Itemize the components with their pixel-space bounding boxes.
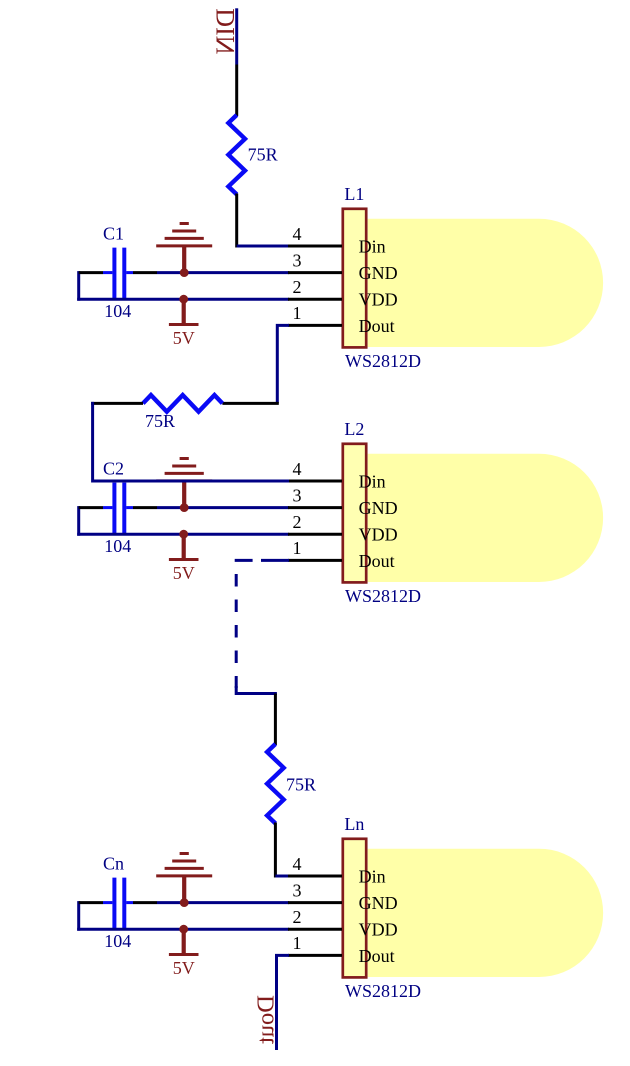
capacitor Cn plates <box>103 878 133 928</box>
pin 3 of L1 <box>288 271 342 274</box>
capacitor Cn right pin <box>133 901 157 904</box>
svg-text:Dout: Dout <box>359 551 395 571</box>
wire VDD net segment <box>77 533 289 536</box>
svg-text:104: 104 <box>104 536 131 556</box>
svg-text:WS2812D: WS2812D <box>345 351 421 371</box>
wire dashed segment horizontal <box>235 559 253 562</box>
svg-text:VDD: VDD <box>359 525 398 545</box>
svg-text:GND: GND <box>359 498 398 518</box>
wire VDD net segment <box>77 928 289 931</box>
pin 4 of L2 <box>288 480 342 483</box>
svg-text:75R: 75R <box>145 411 175 431</box>
resistor R2 75R zigzag (horizontal) <box>143 395 222 412</box>
svg-text:VDD: VDD <box>359 290 398 310</box>
ground symbol (earth) <box>156 224 212 273</box>
pin 2 of Ln <box>288 928 342 931</box>
svg-text:5V: 5V <box>173 563 195 583</box>
LED body shape of L2 <box>368 454 603 582</box>
wire: cap loop vertical <box>77 901 80 931</box>
svg-text:C1: C1 <box>103 224 124 244</box>
svg-text:GND: GND <box>359 893 398 913</box>
svg-text:2: 2 <box>293 512 302 532</box>
svg-text:Din: Din <box>359 236 386 256</box>
svg-text:3: 3 <box>293 250 302 270</box>
svg-text:75R: 75R <box>248 144 278 164</box>
svg-text:L1: L1 <box>344 184 364 204</box>
wire VDD net segment <box>77 298 289 301</box>
pin 3 of L2 <box>288 506 342 509</box>
svg-text:C2: C2 <box>103 459 124 479</box>
svg-text:5V: 5V <box>173 328 195 348</box>
pin 1 of L2 <box>288 559 342 562</box>
capacitor Cn left pin <box>79 901 103 904</box>
svg-text:104: 104 <box>104 301 131 321</box>
svg-text:4: 4 <box>293 224 302 244</box>
wire from R2 down to pin 4 of L2 (drawn over gnd bar) <box>93 402 289 481</box>
wire dashed vertical (chain continues) <box>235 574 238 688</box>
pin 4 of L1 <box>288 245 342 248</box>
resistor R1 bottom pin <box>235 194 238 248</box>
svg-text:2: 2 <box>293 907 302 927</box>
wire: cap loop vertical <box>77 271 80 301</box>
resistor R1 75R zigzag <box>228 115 245 194</box>
resistor R1 top pin <box>235 65 238 117</box>
pin 4 of Ln <box>288 875 342 878</box>
5V power symbol <box>169 929 199 954</box>
svg-text:3: 3 <box>293 880 302 900</box>
svg-text:3: 3 <box>293 485 302 505</box>
ground symbol (earth) <box>156 854 212 903</box>
wire corner to R3 <box>236 686 277 694</box>
resistor R3 bottom pin <box>274 823 277 878</box>
LED body shape of L1 <box>368 219 603 347</box>
component body L2 WS2812D <box>343 444 366 583</box>
capacitor C2 plates <box>103 483 133 533</box>
svg-text:1: 1 <box>293 933 302 953</box>
svg-text:Cn: Cn <box>103 854 124 874</box>
capacitor C2 left pin <box>79 506 103 509</box>
LED body shape of Ln <box>368 849 603 977</box>
svg-text:104: 104 <box>104 931 131 951</box>
junction dot on VDD net <box>179 925 188 934</box>
wire DIN net vertical <box>235 8 238 64</box>
5V power symbol <box>169 299 199 324</box>
svg-text:L2: L2 <box>344 419 364 439</box>
svg-text:1: 1 <box>293 303 302 323</box>
junction dot on VDD net <box>179 530 188 539</box>
pin 2 of L1 <box>288 298 342 301</box>
resistor R2 right pin <box>222 402 278 405</box>
capacitor C2 right pin <box>133 506 157 509</box>
pin 3 of Ln <box>288 901 342 904</box>
resistor R3 75R zigzag <box>267 744 284 823</box>
svg-text:4: 4 <box>293 854 302 874</box>
wire to pin 4 of L1 <box>237 245 289 248</box>
wire from Dout of L2 (solid part) <box>261 559 289 562</box>
svg-text:Din: Din <box>359 866 386 886</box>
junction dot on GND net <box>180 268 189 277</box>
svg-text:2: 2 <box>293 277 302 297</box>
svg-text:WS2812D: WS2812D <box>345 586 421 606</box>
wire from Dout of Ln <box>277 955 290 1050</box>
svg-text:Dout: Dout <box>252 995 279 1044</box>
wire GND net segment <box>157 506 289 509</box>
resistor R2 left pin <box>91 402 143 405</box>
junction dot on GND net <box>180 898 189 907</box>
svg-text:Din: Din <box>359 471 386 491</box>
wire: cap loop vertical <box>77 506 80 536</box>
svg-text:GND: GND <box>359 263 398 283</box>
resistor R3 top pin <box>274 694 277 746</box>
svg-text:1: 1 <box>293 538 302 558</box>
svg-text:VDD: VDD <box>359 920 398 940</box>
svg-text:5V: 5V <box>173 958 195 978</box>
junction dot on VDD net <box>179 295 188 304</box>
pin 2 of L2 <box>288 533 342 536</box>
svg-text:75R: 75R <box>286 774 316 794</box>
wire from Dout of L1 <box>277 325 289 403</box>
pin 1 of L1 <box>288 324 342 327</box>
wire GND net segment <box>157 271 289 274</box>
ground symbol (earth) <box>156 459 212 508</box>
junction dot on GND net <box>180 503 189 512</box>
svg-text:Dout: Dout <box>359 946 395 966</box>
svg-text:WS2812D: WS2812D <box>345 981 421 1001</box>
5V power symbol <box>169 534 199 559</box>
capacitor C1 plates <box>103 248 133 298</box>
svg-text:Ln: Ln <box>344 814 364 834</box>
component body Ln WS2812D <box>343 839 366 978</box>
capacitor C1 right pin <box>133 271 157 274</box>
component body L1 WS2812D <box>343 209 366 348</box>
pin 1 of Ln <box>288 954 342 957</box>
wire GND net segment <box>157 901 289 904</box>
capacitor C1 left pin <box>79 271 103 274</box>
svg-text:Dout: Dout <box>359 316 395 336</box>
wire to pin 4 of Ln <box>275 875 289 878</box>
svg-text:4: 4 <box>293 459 302 479</box>
